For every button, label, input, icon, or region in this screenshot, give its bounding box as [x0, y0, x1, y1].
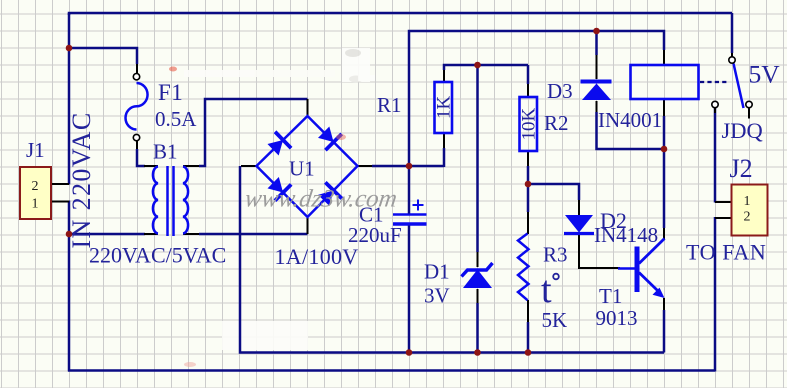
- svg-text:0.5A: 0.5A: [155, 107, 197, 131]
- svg-text:IN4148: IN4148: [594, 223, 658, 247]
- connector J1: [20, 167, 51, 219]
- wire node65 down to D1: [476, 65, 479, 252]
- junction: +V unregulated node: [406, 163, 413, 170]
- wire relay coil bottom pin: [663, 99, 665, 116]
- junction: D1 anode at ground rail: [474, 349, 481, 356]
- wire D2 cathode to T1 base: [579, 233, 620, 268]
- junction: D3 tap on +V rail: [593, 28, 600, 35]
- junction: C1 negative at ground rail: [406, 349, 413, 356]
- fuse F1: [126, 83, 148, 130]
- svg-text:T1: T1: [599, 284, 622, 308]
- junction: zener reference node: [474, 62, 481, 69]
- capacitor C1: [393, 167, 427, 353]
- svg-text:J1: J1: [26, 138, 45, 162]
- svg-text:5K: 5K: [542, 308, 568, 332]
- diode D3: [581, 82, 612, 101]
- junction: mains live at fuse tap: [66, 45, 73, 52]
- svg-text:U1: U1: [289, 157, 315, 181]
- wire fuse feed: [68, 48, 137, 64]
- wire fuse to transformer primary top: [136, 141, 138, 149]
- relay dashed linkage: [700, 81, 729, 83]
- wire R2 top pin: [527, 65, 530, 84]
- wire D3 bottom to node149: [596, 101, 598, 112]
- wire secondary top to bridge: [183, 165, 200, 167]
- junction: mains neutral at primary return: [66, 231, 73, 238]
- wire left side rail upper: [68, 13, 71, 185]
- wire primary bottom return to J1: [68, 233, 145, 236]
- svg-text:D3: D3: [547, 79, 573, 103]
- svg-text:B1: B1: [153, 140, 178, 164]
- wire secondary bottom to bridge: [183, 233, 200, 235]
- svg-text:TO FAN: TO FAN: [686, 240, 766, 265]
- svg-text:JDQ: JDQ: [722, 118, 763, 143]
- svg-text:R3: R3: [543, 243, 568, 267]
- junction: R3 at ground rail: [525, 349, 532, 356]
- svg-text:www.dz3w.com: www.dz3w.com: [243, 186, 399, 213]
- wire bridge negative to ground rail: [241, 165, 257, 167]
- resistor R1: [435, 82, 453, 133]
- wire J2 pin2 stub: [715, 217, 731, 219]
- svg-text:1: 1: [744, 194, 751, 209]
- svg-text:J2: J2: [730, 154, 753, 183]
- wire J1 pin1 stub: [51, 201, 69, 203]
- svg-text:1: 1: [32, 197, 39, 212]
- svg-text:5V: 5V: [749, 60, 781, 89]
- connector J2: [732, 185, 768, 236]
- transistor T1: [618, 239, 665, 299]
- svg-text:t: t: [541, 269, 552, 311]
- wire bridge positive output: [358, 165, 374, 167]
- relay switch JDQ: [712, 57, 752, 119]
- transformer B1: [153, 166, 188, 236]
- svg-text:220VAC/5VAC: 220VAC/5VAC: [89, 243, 226, 268]
- thermistor R3: [518, 234, 529, 301]
- wire left side rail lower: [68, 201, 71, 372]
- wire T1 collector riser: [663, 149, 666, 228]
- wire right side rail from switch to J2 pin1: [714, 108, 717, 203]
- junction: R2/R3/D2 divider node: [525, 181, 532, 188]
- wire D1 to ground rail: [477, 289, 479, 303]
- svg-text:2: 2: [744, 210, 751, 225]
- wire R1 bottom pin: [443, 148, 446, 167]
- svg-text:R1: R1: [377, 93, 402, 117]
- relay coil K1: [631, 65, 699, 99]
- svg-text:IN4001: IN4001: [598, 108, 662, 132]
- wire right side rail J2 pin2 to bottom: [714, 217, 717, 372]
- wire riser to +V rail and relay drop: [409, 31, 664, 166]
- svg-text:9013: 9013: [596, 306, 638, 330]
- junction: relay/D3/collector node: [661, 146, 668, 153]
- thermistor t symbol: [541, 269, 559, 311]
- svg-text:220uF: 220uF: [348, 223, 402, 247]
- diode D2: [564, 215, 594, 234]
- svg-text:10K: 10K: [519, 108, 540, 141]
- wire node184 down to R3: [527, 184, 530, 212]
- zener diode D1: [462, 263, 493, 288]
- svg-text:1K: 1K: [434, 96, 455, 120]
- wire R2 bottom to node184: [527, 151, 529, 166]
- resistor R2: [520, 97, 538, 151]
- svg-text:2: 2: [32, 179, 39, 194]
- wire J2 pin1 stub: [715, 201, 731, 203]
- svg-text:3V: 3V: [424, 284, 450, 308]
- svg-text:R2: R2: [544, 111, 569, 135]
- wire switch feed drop: [731, 13, 734, 53]
- wire R1 top to node65: [443, 70, 445, 82]
- bridge rectifier U1: [257, 116, 358, 217]
- svg-text:F1: F1: [158, 80, 183, 105]
- wire T1 emitter to ground: [663, 298, 665, 310]
- wire J1 pin2 stub: [51, 183, 69, 185]
- wire D3 top pin from +V rail: [595, 31, 598, 55]
- svg-text:1A/100V: 1A/100V: [275, 244, 359, 269]
- svg-text:IN 220VAC: IN 220VAC: [67, 111, 96, 248]
- wire R3 to ground rail: [527, 300, 529, 322]
- wire top rail 220VAC: [69, 13, 732, 15]
- wire outer bottom rail: [68, 369, 715, 372]
- svg-text:D1: D1: [424, 260, 450, 284]
- wire node184 to D2: [528, 184, 579, 200]
